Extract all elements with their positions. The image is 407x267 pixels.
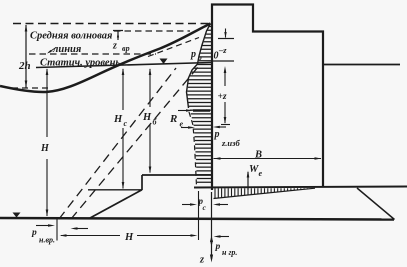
- dimension H (water depth) vertical line: [46, 69, 48, 216]
- uplift force We arrow: [247, 172, 249, 190]
- still water level tick right of wall: [213, 60, 234, 62]
- short left arrow right of wall axis at bottom: [217, 236, 229, 238]
- dimension B horizontal line: [214, 158, 322, 160]
- water depth mark (nabla) on seabed line at left: [13, 213, 21, 218]
- p_z ordinate arrow left side: [181, 127, 192, 129]
- arrow onto mean-line tick right of wall: [218, 38, 234, 40]
- wave crest level dashed line: [13, 23, 211, 25]
- p_c / pressure edge extension line: [198, 191, 200, 240]
- svg-text:н гр.: н гр.: [222, 248, 237, 257]
- depth z tick: [221, 124, 230, 126]
- rubble mound front slope: [90, 190, 142, 218]
- svg-text:R: R: [169, 113, 177, 125]
- svg-text:р: р: [190, 49, 196, 60]
- static water level line: [36, 63, 211, 68]
- svg-text:Н: Н: [142, 112, 152, 123]
- harbour-side water level line: [324, 64, 400, 66]
- svg-text:н.вр.: н.вр.: [39, 236, 55, 245]
- small down arrowhead on z axis: [210, 241, 213, 248]
- wave pressure diagram left boundary (dashed lower part): [189, 112, 197, 186]
- svg-text:z: z: [112, 41, 117, 52]
- svg-text:Н: Н: [40, 143, 50, 154]
- svg-text:+z: +z: [218, 92, 227, 102]
- svg-text:W: W: [249, 164, 259, 175]
- long dashed construction diagonal B: [71, 67, 198, 219]
- svg-text:с: с: [124, 119, 128, 128]
- svg-text:с: с: [203, 203, 207, 212]
- p_n.gr uplift arrow pointing up: [210, 235, 213, 242]
- seabed ground line: [0, 218, 394, 220]
- mean wave line level at wall (dashed): [114, 30, 190, 32]
- dimension Hc vertical line: [122, 69, 124, 189]
- svg-text:0: 0: [214, 51, 219, 62]
- Re resultant bold line in diagram: [193, 109, 210, 112]
- bottom-left extension tick: [56, 218, 58, 241]
- wave pressure diagram left boundary (solid upper part): [187, 24, 211, 109]
- svg-text:б: б: [153, 118, 158, 127]
- berm front vertical face: [141, 175, 143, 190]
- svg-text:Средняя волновая: Средняя волновая: [30, 31, 113, 42]
- uplift pressure triangle under wall base (vertical hatching): [215, 188, 307, 198]
- Re arrow: [178, 110, 190, 112]
- +z axis arrow below SWL tick: [224, 70, 226, 123]
- long dashed construction diagonal A: [59, 68, 176, 219]
- dimension 2h vertical arrow line: [25, 25, 27, 88]
- svg-text:В: В: [254, 150, 262, 161]
- uplift triangle sloping bottom edge: [214, 188, 316, 198]
- small left arrow at bottom left: [74, 228, 88, 230]
- svg-text:р: р: [215, 242, 221, 252]
- rubble-mound berm top edge: [142, 174, 211, 176]
- svg-text:z.изб: z.изб: [221, 138, 240, 148]
- svg-text:е: е: [259, 169, 263, 178]
- wall base / ground line behind wall: [194, 187, 407, 188]
- leader arrow for "liniya" label: [49, 48, 57, 53]
- wave trough level short dashed line: [12, 87, 48, 89]
- p_c dimension arrow right: [216, 204, 228, 206]
- mean wave line rising dashed segment near wall: [148, 38, 199, 57]
- svg-text:р: р: [31, 228, 37, 238]
- p_z.izb arrow right side pointing at wall face: [219, 126, 226, 128]
- dimension Hb vertical line: [149, 69, 151, 173]
- small right arrow p_n.vr: [36, 225, 51, 227]
- svg-text:2h: 2h: [18, 60, 31, 72]
- p_c dimension arrow left: [182, 204, 192, 206]
- water level mark (nabla) on static level: [160, 59, 168, 65]
- mean wave line far-field level (dashed): [29, 53, 156, 55]
- rubble level line in front of berm: [88, 189, 142, 191]
- wave surface profile curve: [0, 24, 211, 93]
- z_vr dimension tick and bar: [113, 31, 123, 41]
- svg-text:Статич. уровень: Статич. уровень: [40, 58, 120, 69]
- dimension H bottom horizontal line: [61, 235, 195, 237]
- svg-text:о: о: [198, 53, 202, 62]
- svg-text:Н: Н: [124, 232, 134, 243]
- svg-text:z: z: [199, 255, 205, 266]
- svg-text:линия: линия: [52, 44, 82, 55]
- wall face wave-pressure diagram hatching: [187, 27, 211, 183]
- svg-text:р: р: [214, 129, 220, 140]
- svg-text:вр: вр: [122, 44, 130, 53]
- breakwater wall outline: [212, 5, 323, 191]
- svg-text:е: е: [180, 120, 184, 129]
- excavation wedge slant at right: [357, 188, 395, 220]
- z axis line below wall face: [211, 192, 213, 259]
- svg-text:Н: Н: [113, 114, 123, 125]
- svg-text:–z: –z: [218, 45, 227, 55]
